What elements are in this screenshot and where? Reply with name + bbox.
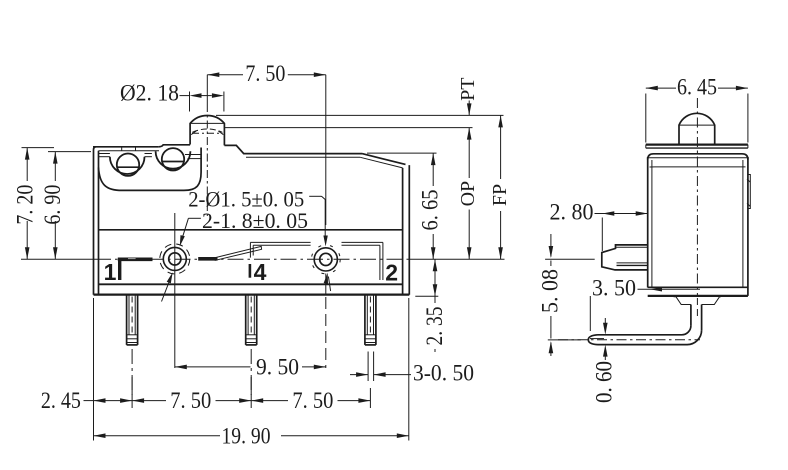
svg-text:7. 50: 7. 50 [170,388,211,413]
terminal pin 1 [127,295,138,345]
hole 1 vertical extension line [174,213,176,368]
side view: plunger button [679,113,715,144]
svg-text:6. 65: 6. 65 [418,190,443,231]
svg-text:FP: FP [489,184,511,206]
U-cradle arc under right roller [156,151,191,168]
svg-text:PT: PT [457,78,479,101]
svg-text:7. 20: 7. 20 [13,185,38,225]
side view: vertical centreline [696,98,698,318]
shelf double lines top-left [99,154,152,157]
terminal number 4 [250,259,267,285]
dimension 7.50 (top, button to hole2) [207,61,325,86]
dimension FP [489,115,511,259]
side view: actuator nib (left protrusion) [602,245,648,270]
svg-text:2. 45: 2. 45 [41,388,81,413]
dimension 2.45 / 7.50 / 7.50 (bottom row) [41,377,371,413]
plunger button (left view) [190,115,224,145]
svg-text:5. 08: 5. 08 [538,269,563,313]
dimension 19.90 [94,424,409,449]
side view: L-shaped terminal pin [588,305,701,345]
button centre cross (dash-dot) [192,132,223,134]
U-cradle arc under left roller [110,157,145,174]
dimension OP [457,128,479,260]
button hidden arc (dashed) [191,129,223,135]
svg-text:6. 90: 6. 90 [40,185,65,225]
moving lever (double line) [215,246,261,260]
step detail under button [185,155,201,159]
roller circle left [117,154,139,176]
leader label 2-1.8 [180,208,331,291]
right body edge extension line [408,298,410,441]
side view: dimension 6.45 [646,75,748,143]
main horizontal centreline [21,258,505,260]
terminal 1 contact bar (thick) [118,258,153,281]
extension line free position (button top) [216,114,504,116]
dimension dia 2.18 (button) [120,81,224,112]
side view: body sides (double lines) [648,157,748,296]
NC contact bracket (terminal 4) [250,242,310,257]
dimension 9.50 [175,355,326,380]
leader label 2-dia1.5 [162,187,328,302]
terminal number 1 [104,259,117,285]
svg-text:2. 35: 2. 35 [422,307,447,346]
inner pocket outline [99,148,202,191]
dimension PT [457,78,479,140]
svg-text:2. 80: 2. 80 [550,200,594,225]
dimension 7.20 (left) [13,148,55,260]
NC contact bracket (terminal 2) [342,242,383,280]
side view: dimension 3.50 [590,276,700,332]
horizontal band line across body [99,229,403,231]
svg-text:7. 50: 7. 50 [245,61,285,86]
svg-text:0. 60: 0. 60 [592,361,617,403]
terminal pin 3 [365,295,376,345]
svg-text:2: 2 [385,259,398,285]
body top right of button [224,145,362,157]
svg-text:1: 1 [104,259,117,285]
svg-text:3-0. 50: 3-0. 50 [413,361,474,386]
common terminal tail bar (thick) [198,257,217,261]
hole 2 vertical extension line [325,75,327,368]
pin 1 centreline extension [131,349,133,395]
svg-text:19. 90: 19. 90 [222,424,271,449]
button vertical centreline [206,75,208,216]
side view: cap top (double line) [646,145,748,149]
side view: dimension 5.08 [538,234,595,356]
button dome base chord [190,122,224,124]
svg-text:9. 50: 9. 50 [256,355,299,380]
svg-text:3. 50: 3. 50 [592,276,636,301]
body right edge (double line) [403,165,410,295]
side view: dimension 2.80 [550,200,648,252]
dimension 2.35 (right lower) [415,259,447,352]
extension line operating position [225,127,473,129]
side view: cap band with rounded corners [648,154,748,167]
pin 3 width extension lines [368,352,374,382]
svg-text:4: 4 [254,259,267,285]
terminal pin 2 [246,295,257,345]
dimension 6.90 (left) [40,152,91,260]
mounting hole 1 (2-dia1.5) [160,244,190,274]
pin 2 centreline extension [250,349,252,395]
side view: right edge latch strip [747,175,750,209]
svg-text:Ø2. 18: Ø2. 18 [120,81,179,106]
micro-switch left view: body left edge (double line) [94,147,99,295]
side view: body bottom (double line) [648,287,748,296]
svg-text:7. 50: 7. 50 [292,388,333,413]
svg-text:6. 45: 6. 45 [677,75,717,100]
body top-left edge [93,147,159,151]
side view: dimension 0.60 [592,318,617,403]
mounting hole 2 (2-dia1.5) [311,245,340,274]
terminal number 2 [385,259,398,285]
platform step under button [158,145,190,147]
dimension 6.65 (right) [418,153,443,259]
extension line top of body for 6.65 [367,152,437,154]
side view: bottom foot trapezoid [674,297,721,305]
roller circle right [162,148,184,170]
side view: pin centreline [558,339,700,341]
dimension 3-0.50 (pin width) [350,361,474,386]
top-right chamfer (double) [360,154,405,168]
body bottom edge (double line) [94,284,410,294]
left body edge extension line [93,298,95,441]
svg-text:2-1. 8±0. 05: 2-1. 8±0. 05 [202,208,308,233]
svg-text:OP: OP [457,181,479,207]
